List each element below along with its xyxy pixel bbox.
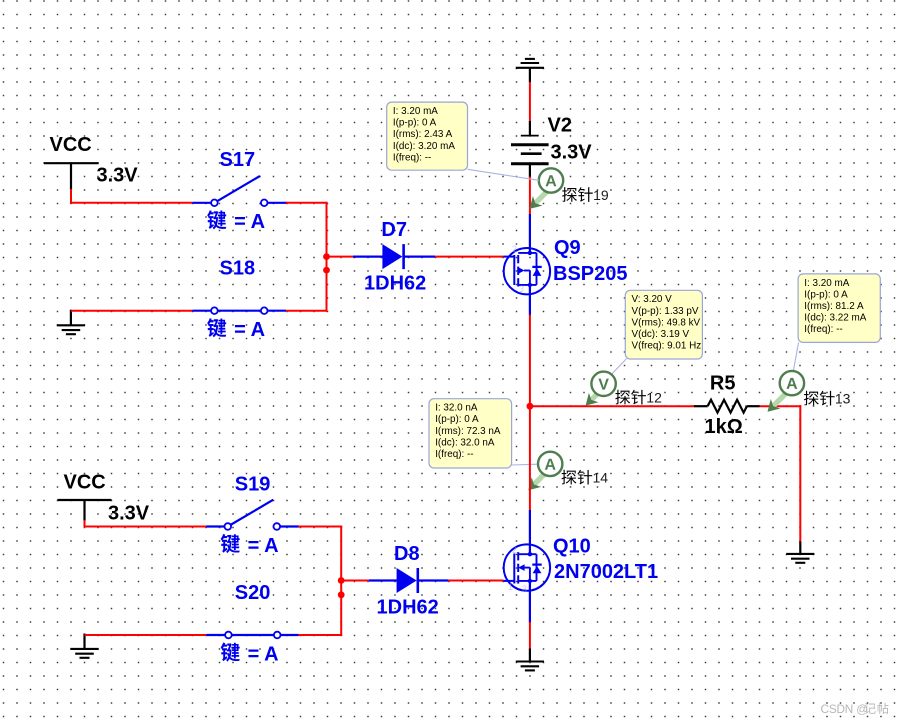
- tooltip probe13 readings: [798, 274, 880, 343]
- svg-text:I(freq): --: I(freq): --: [804, 324, 842, 335]
- resistor R5: [694, 400, 760, 413]
- svg-text:V(p-p): 1.33 pV: V(p-p): 1.33 pV: [632, 306, 699, 317]
- value 键 = A (S19): [221, 534, 279, 557]
- label 探针 12: [615, 390, 662, 406]
- ground symbol (bottom-left): [70, 649, 98, 658]
- label 探针 14: [562, 470, 609, 486]
- wire D8 to Q10 gate: [448, 580, 503, 582]
- ground (S18 left): [70, 310, 72, 326]
- junction node (S17/S18 to D7): [323, 253, 330, 260]
- pin lead S17 left: [192, 202, 211, 204]
- battery V2: [511, 121, 549, 178]
- wire ground to S20: [85, 634, 207, 636]
- svg-text:I: 3.20 mA: I: 3.20 mA: [804, 278, 849, 289]
- pin lead S17 right: [267, 202, 287, 204]
- current probe 探针13: [768, 371, 805, 412]
- pin lead S20 right: [280, 634, 299, 636]
- svg-text:V2: V2: [548, 115, 572, 137]
- wire junction to D8: [341, 580, 369, 582]
- pin lead Q10 drain: [529, 510, 531, 555]
- ground (S20 left): [83, 634, 85, 649]
- switch S19: [225, 500, 281, 530]
- value 键 = A (S20): [221, 643, 279, 666]
- svg-text:13: 13: [835, 391, 851, 407]
- svg-text:I(p-p): 0 A: I(p-p): 0 A: [435, 414, 479, 425]
- wire Q9 to junction: [529, 315, 531, 408]
- svg-text:2: 2: [512, 545, 517, 555]
- pin lead D8 cathode: [418, 579, 449, 581]
- svg-text:V(dc): 3.19 V: V(dc): 3.19 V: [632, 329, 690, 340]
- svg-text:S19: S19: [235, 473, 271, 495]
- tooltip probe12 readings: [625, 290, 702, 359]
- voltage probe 探针12: [586, 372, 616, 406]
- junction node 2 (bottom): [338, 591, 345, 598]
- svg-text:I(p-p): 0 A: I(p-p): 0 A: [804, 289, 848, 300]
- pin lead Q10 source: [529, 581, 531, 623]
- wire R5 to ground: [760, 405, 802, 407]
- switch S18: [211, 307, 267, 314]
- svg-text:3.3V: 3.3V: [97, 164, 139, 186]
- callout line tooltip to 探针12: [612, 359, 627, 375]
- ground symbol (top-left): [57, 325, 85, 334]
- switch S17: [211, 176, 267, 206]
- power VCC (bottom): [58, 471, 112, 521]
- diode D8: [397, 568, 418, 593]
- power VCC (top): [44, 134, 99, 190]
- pin lead S19 right: [280, 525, 299, 527]
- wire ground to V2: [529, 82, 531, 122]
- svg-text:= A: = A: [234, 319, 265, 341]
- wire ground to S18: [71, 310, 192, 312]
- current probe 探针19: [530, 168, 564, 209]
- pin lead Q9 source: [529, 285, 531, 316]
- pin lead S19 left: [206, 525, 224, 527]
- svg-text:VCC: VCC: [64, 471, 106, 493]
- pin lead D8 anode: [369, 579, 398, 581]
- svg-text:19: 19: [593, 187, 609, 203]
- ground symbol (right): [786, 554, 814, 563]
- svg-text:1DH62: 1DH62: [377, 597, 439, 619]
- transistor Q10 (2N7002LT1 N-MOSFET): [504, 544, 551, 594]
- svg-text:12: 12: [646, 390, 662, 406]
- wire S19 to junction: [298, 526, 342, 528]
- pin lead S18 right: [267, 310, 286, 312]
- label 探针 13: [804, 391, 851, 407]
- svg-text:Q9: Q9: [554, 237, 581, 259]
- svg-text:I(dc): 3.20 mA: I(dc): 3.20 mA: [393, 141, 455, 152]
- svg-text:3.3V: 3.3V: [108, 502, 150, 524]
- pin lead D7 anode: [353, 256, 383, 258]
- wire S20 to junction: [298, 634, 342, 636]
- svg-text:D7: D7: [381, 219, 407, 241]
- value 键 = A (S18): [207, 318, 265, 341]
- svg-text:D8: D8: [394, 543, 420, 565]
- svg-text:14: 14: [593, 470, 609, 486]
- wire node to Q10 drain: [529, 405, 531, 511]
- svg-text:I(rms): 2.43 A: I(rms): 2.43 A: [393, 129, 453, 140]
- svg-text:I(rms): 81.2 A: I(rms): 81.2 A: [804, 301, 864, 312]
- svg-text:3: 3: [522, 584, 527, 594]
- svg-text:I(freq): --: I(freq): --: [393, 152, 431, 163]
- svg-text:V: 3.20 V: V: 3.20 V: [632, 294, 673, 305]
- tooltip probe19 readings: [387, 102, 468, 170]
- transistor Q9 (BSP205 P-MOSFET): [504, 244, 551, 294]
- svg-text:= A: = A: [248, 643, 279, 665]
- svg-text:2N7002LT1: 2N7002LT1: [554, 561, 658, 583]
- junction node (S19/S20 to D8): [338, 577, 345, 584]
- svg-text:V(freq): 9.01 Hz: V(freq): 9.01 Hz: [632, 341, 702, 352]
- tooltip probe14 readings: [429, 399, 512, 468]
- svg-text:= A: = A: [248, 535, 279, 557]
- value 键 = A (S17): [207, 210, 265, 233]
- ground symbol (bottom): [516, 662, 544, 671]
- svg-text:3.3V: 3.3V: [551, 142, 593, 164]
- pin lead Q9 drain: [529, 214, 531, 253]
- svg-text:R5: R5: [710, 372, 736, 394]
- diode D7: [382, 244, 403, 269]
- callout line tooltip to 探针13: [793, 342, 798, 371]
- pin lead S20 left: [206, 634, 225, 636]
- svg-text:1DH62: 1DH62: [364, 273, 426, 295]
- wire D7 to Q9 gate: [435, 256, 504, 258]
- wire VCC to S17: [70, 189, 72, 204]
- svg-text:CSDN @: CSDN @: [821, 702, 868, 716]
- svg-text:I(freq): --: I(freq): --: [435, 449, 473, 460]
- switch S20: [225, 632, 280, 639]
- svg-text:Q10: Q10: [553, 535, 591, 557]
- svg-text:I: 3.20 mA: I: 3.20 mA: [393, 106, 438, 117]
- pin lead D7 cathode: [404, 256, 435, 258]
- wire S18 to junction: [286, 310, 327, 312]
- ground symbol (top, above V2): [516, 59, 544, 68]
- wire S17 to junction: [286, 202, 328, 204]
- callout line tooltip to 探针19: [468, 169, 540, 180]
- svg-text:VCC: VCC: [50, 134, 92, 156]
- wire Q10 to ground: [529, 622, 531, 650]
- svg-text:2: 2: [512, 244, 517, 254]
- wire junction to D7: [327, 256, 354, 258]
- svg-text:S17: S17: [220, 149, 256, 171]
- pin lead S18 left: [192, 310, 211, 312]
- svg-text:= A: = A: [234, 211, 265, 233]
- junction node (Q9/Q10/R5): [527, 403, 534, 410]
- svg-text:I: 32.0 nA: I: 32.0 nA: [435, 403, 478, 414]
- svg-text:V(rms): 49.8 kV: V(rms): 49.8 kV: [632, 317, 701, 328]
- label 探针 19: [562, 187, 609, 203]
- svg-text:1: 1: [508, 582, 513, 592]
- svg-text:I(p-p): 0 A: I(p-p): 0 A: [393, 118, 437, 129]
- wire VCC to S19: [84, 520, 86, 528]
- wire V2 to Q9: [529, 177, 531, 216]
- svg-text:1kΩ: 1kΩ: [705, 416, 743, 438]
- svg-text:I(dc): 32.0 nA: I(dc): 32.0 nA: [435, 437, 495, 448]
- svg-text:3: 3: [519, 284, 524, 294]
- watermark CSDN @记帖: [821, 702, 889, 716]
- svg-text:BSP205: BSP205: [553, 263, 628, 285]
- svg-text:S18: S18: [220, 257, 256, 279]
- svg-text:S20: S20: [235, 582, 271, 604]
- wire node to R5: [530, 405, 695, 407]
- callout line tooltip to 探针14: [512, 463, 538, 466]
- svg-text:I(dc): 3.22 mA: I(dc): 3.22 mA: [804, 313, 866, 324]
- junction node 2: [323, 267, 330, 274]
- current probe 探针14: [528, 452, 562, 491]
- svg-text:I(rms): 72.3 nA: I(rms): 72.3 nA: [435, 426, 501, 437]
